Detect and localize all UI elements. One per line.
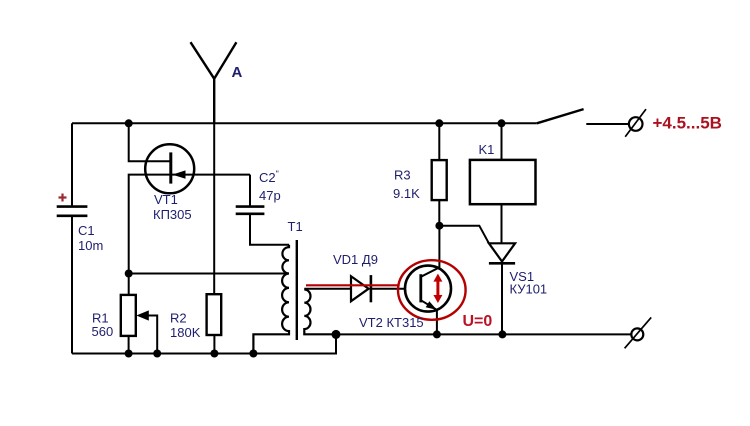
wire top power rail bbox=[72, 122, 537, 124]
junction dot K1 branch bbox=[498, 119, 506, 127]
junction dot R1 wiper bbox=[153, 350, 161, 358]
wire ground rail bbox=[72, 334, 631, 353]
wire gate line to C2 bbox=[249, 175, 251, 207]
wire T1 secondary to VD1 bbox=[304, 288, 351, 290]
wire C2 to T1 primary top bbox=[250, 214, 289, 245]
diode VD1 bbox=[351, 276, 369, 301]
R1 wiper arrow bbox=[145, 316, 157, 354]
junction dot VT2 emitter bbox=[433, 330, 441, 338]
svg-text:10m: 10m bbox=[78, 238, 103, 253]
junction dot ground jog bbox=[332, 330, 341, 339]
resistor R3 bbox=[438, 123, 440, 225]
svg-text:VT2 КТ315: VT2 КТ315 bbox=[359, 315, 424, 330]
wire R1 bottom bbox=[128, 336, 130, 354]
transformer T1 primary winding bbox=[253, 245, 289, 354]
junction dot R3 branch bbox=[435, 119, 443, 127]
red annotation arrow bbox=[436, 281, 439, 297]
relay K1 bbox=[501, 123, 503, 160]
wire VT1 gate line to R1 bbox=[129, 175, 250, 295]
transformer T1 core bbox=[296, 240, 298, 340]
transformer T1 secondary winding bbox=[304, 290, 336, 335]
svg-text:560: 560 bbox=[92, 324, 114, 339]
svg-text:+4.5...5В: +4.5...5В bbox=[653, 114, 722, 133]
junction dot T1 primary bottom bbox=[249, 350, 257, 358]
svg-text:КП305: КП305 bbox=[153, 207, 192, 222]
svg-text:VD1 Д9: VD1 Д9 bbox=[333, 252, 378, 267]
wire collector to VS1 gate bbox=[439, 226, 489, 244]
wire R2 bottom bbox=[213, 335, 215, 354]
svg-text:КУ101: КУ101 bbox=[510, 282, 548, 297]
svg-text:C1: C1 bbox=[78, 223, 95, 238]
polarity plus of C1 bbox=[59, 194, 67, 202]
capacitor C2 bbox=[236, 207, 265, 214]
junction dot gate divider tap bbox=[125, 270, 133, 278]
switch SA bbox=[537, 109, 584, 123]
svg-text:R2: R2 bbox=[170, 311, 187, 326]
red annotation circle bbox=[398, 260, 466, 320]
transistor VT2 bbox=[405, 266, 451, 312]
svg-text:R3: R3 bbox=[394, 168, 411, 183]
transistor VT1 bbox=[145, 144, 194, 193]
svg-text:180K: 180K bbox=[170, 325, 201, 340]
junction dot R2 bottom bbox=[210, 350, 218, 358]
svg-text:K1: K1 bbox=[479, 142, 495, 157]
red signal line bbox=[306, 284, 400, 286]
wire antenna to R2 bbox=[213, 123, 215, 294]
terminal top bbox=[629, 117, 643, 131]
wire switch to top terminal bbox=[586, 123, 629, 125]
terminal bottom bbox=[631, 328, 643, 340]
wire VD1 to VT2 base bbox=[371, 288, 405, 290]
svg-text:VT1: VT1 bbox=[154, 192, 178, 207]
resistor R2 bbox=[207, 294, 222, 335]
svg-text:47p: 47p bbox=[259, 188, 281, 203]
junction dot VS1 cathode bbox=[498, 330, 506, 338]
junction dot VT1 drain branch bbox=[125, 119, 133, 127]
wire rail to C1 bbox=[71, 123, 73, 206]
wire VT1 drain lead bbox=[129, 123, 170, 161]
svg-text:U=0: U=0 bbox=[463, 313, 493, 330]
thyristor VS1 bbox=[489, 243, 515, 261]
wire K1 to VS1 bbox=[501, 204, 503, 243]
antenna A bbox=[191, 42, 237, 123]
wire divider tap to T1 bbox=[129, 273, 289, 275]
svg-text:T1: T1 bbox=[288, 219, 303, 234]
svg-text:C2": C2" bbox=[259, 169, 279, 185]
capacitor C1 bbox=[57, 207, 88, 216]
junction dot R1 left bbox=[125, 350, 133, 358]
wire C1 to ground rail bbox=[71, 216, 73, 354]
svg-text:9.1K: 9.1K bbox=[393, 186, 420, 201]
svg-text:A: A bbox=[232, 64, 243, 81]
resistor R1 bbox=[121, 295, 136, 336]
junction dot VT2 collector bbox=[435, 222, 443, 230]
